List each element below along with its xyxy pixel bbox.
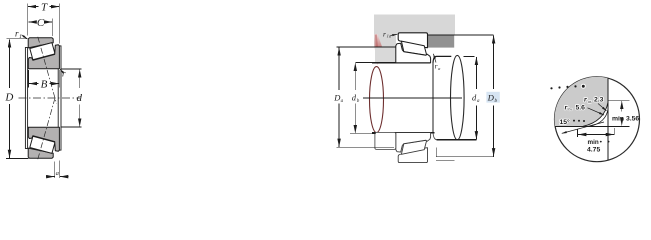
Db highlight <box>486 92 499 103</box>
dots near min 4.75 <box>600 141 610 143</box>
mirrored housing bore line <box>436 160 455 162</box>
dimension a (effective load center) <box>46 161 68 179</box>
housing block <box>374 15 455 47</box>
cage front rim strip <box>25 48 27 149</box>
dimension D <box>4 39 28 159</box>
housing shoulder top line to Db <box>428 34 494 36</box>
cage rear rim strip <box>58 46 61 150</box>
cup (fig2) <box>398 33 427 48</box>
label ra with leader and fillet arc <box>433 54 441 71</box>
svg-text:B: B <box>41 78 48 90</box>
dimension C <box>29 17 53 36</box>
label r1a with leader <box>383 29 397 38</box>
roller axis dash line (top) <box>38 37 57 104</box>
cone inner ring with ribs (top section) <box>28 45 59 69</box>
chamfer profile curve (inner) <box>590 109 608 126</box>
cup outer ring (bottom section, mirrored) <box>28 148 53 158</box>
label r1 with leader <box>15 29 27 41</box>
svg-text:C: C <box>37 17 45 29</box>
detail circle <box>555 77 640 162</box>
svg-text:15°: 15° <box>560 118 571 126</box>
dimension B <box>28 70 59 90</box>
dimension T <box>28 1 60 43</box>
label 15deg <box>560 118 571 126</box>
roller axis dash line (bottom) <box>38 98 55 159</box>
dimension d <box>61 69 83 127</box>
shaft left break ellipse <box>370 67 384 133</box>
svg-text:2.3: 2.3 <box>594 97 604 104</box>
svg-text:bs: bs <box>568 107 572 112</box>
mirrored roller <box>401 140 426 154</box>
svg-text:r: r <box>584 95 587 104</box>
svg-text:4.75: 4.75 <box>587 147 600 154</box>
axis line <box>363 97 462 99</box>
svg-text:1a: 1a <box>387 34 392 39</box>
svg-text:a: a <box>56 170 59 177</box>
svg-text:min: min <box>588 139 599 146</box>
dimension da <box>472 57 480 139</box>
cone inner ring with ribs (bottom section) <box>28 127 59 151</box>
dotted reference line top-left <box>550 84 585 89</box>
chamfer top reference line <box>608 99 630 101</box>
svg-text:d: d <box>77 92 83 104</box>
min 3.56 dimension <box>612 101 639 126</box>
Db bottom reference line <box>436 148 494 157</box>
cone with back rib (fig2) <box>396 43 431 63</box>
svg-text:r: r <box>62 69 66 79</box>
tapered roller (bottom section) <box>30 136 55 153</box>
shaft bottom line (left cylinder + mirrored bore) <box>372 132 435 134</box>
shaft seat line <box>372 62 431 64</box>
mirrored shoulder outline <box>375 132 396 149</box>
shaft shoulder bump <box>337 47 396 63</box>
svg-text:D: D <box>4 92 13 104</box>
svg-text:r: r <box>565 102 568 111</box>
ring bore face horizontal line <box>555 125 629 127</box>
min 4.75 dimension <box>578 128 615 154</box>
svg-text:5.6: 5.6 <box>576 105 586 112</box>
label ras 2.3 with leader <box>584 95 607 111</box>
red shoulder marker wedge <box>374 34 382 65</box>
right cylinder bottom line <box>433 133 476 140</box>
shaft step and right cylinder top <box>433 56 475 132</box>
shaft right break ellipse <box>451 55 465 139</box>
svg-text:as: as <box>588 99 592 104</box>
roller (fig2) <box>401 41 426 55</box>
dimension Db <box>487 35 498 156</box>
dimension Da <box>333 48 394 148</box>
ring side face vertical line <box>607 78 609 160</box>
cup outer ring (top section) <box>28 38 53 48</box>
mirrored bottom bearing outline: cup <box>398 148 427 163</box>
15 degree line <box>562 122 604 133</box>
dimension db <box>350 62 376 133</box>
ring corner shaded area <box>555 77 608 127</box>
svg-text:T: T <box>41 1 48 13</box>
dotted line near 15deg <box>573 120 585 122</box>
label rbs 5.6 with leader <box>565 102 605 115</box>
housing shoulder block (dark) <box>428 35 455 48</box>
svg-text:r: r <box>383 29 386 38</box>
label r with leader <box>60 69 66 79</box>
tapered roller (top section) <box>30 43 55 60</box>
svg-text:min 3.56: min 3.56 <box>612 115 639 122</box>
bearing axis centerline <box>19 97 81 99</box>
mirrored cone <box>396 133 431 153</box>
chamfer profile curve (outer) <box>583 102 608 126</box>
